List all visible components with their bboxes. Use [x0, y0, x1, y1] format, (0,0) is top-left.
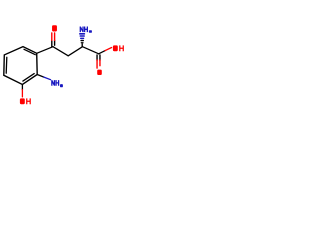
- ketone C1=O double bond right line black half: [54, 40, 56, 45]
- chain NH2 label: N: [80, 27, 83, 33]
- acid OH label: O: [113, 45, 118, 51]
- acid C4=O double bond right line black half: [99, 55, 101, 60]
- aromatic inner line bottom-right: [23, 74, 34, 82]
- bond C4 to acid OH (black half): [99, 51, 106, 54]
- hash dash 1 blue: [80, 33, 85, 35]
- bond C1 to C2: [53, 47, 68, 56]
- aryl NH2 label: N: [52, 80, 55, 86]
- bond C3 to C4: [83, 47, 99, 54]
- chain NH2 label: H: [85, 27, 88, 33]
- benzene ring outer edges: [4, 47, 37, 85]
- bond C4 to acid OH (red half): [105, 48, 111, 51]
- aromatic inner line left: [5, 57, 8, 73]
- hash dash 3 blue: [81, 37, 84, 39]
- ketone C1=O double bond right line red half: [54, 33, 56, 41]
- ketone C1=O double bond left line black half: [51, 40, 53, 46]
- ketone C1=O double bond left line red half: [51, 33, 53, 41]
- phenol OH label: H: [27, 98, 30, 104]
- acid OH label: H: [120, 45, 123, 51]
- acid C4=O double bond right line red half: [99, 60, 101, 66]
- phenol OH label: O: [20, 98, 25, 104]
- hash dash 4 black: [81, 40, 83, 42]
- hash dash 5 black: [81, 42, 83, 44]
- acid C4=O double bond left line red half: [96, 60, 98, 68]
- bond ring to phenol O (black half): [21, 85, 23, 90]
- bond ring to carbonyl C1: [37, 47, 53, 54]
- acid C4=O double bond left line black half: [96, 55, 98, 60]
- bond ring to aryl NH2 (black half): [37, 75, 44, 78]
- bond C2 to C3: [68, 47, 82, 56]
- hash dash 2 blue: [80, 35, 84, 37]
- ketone O label: [52, 25, 57, 31]
- aryl NH2 label: H: [56, 80, 59, 86]
- chain NH2 label: subscript 2: [89, 30, 92, 33]
- bond ring to phenol O (red half): [21, 90, 23, 97]
- stereo hash wedge C3 to NH2: dash 6 (stem, black): [81, 44, 83, 46]
- aromatic inner line top-right: [24, 49, 35, 54]
- acid carbonyl O label: [97, 70, 102, 75]
- bond ring to aryl NH2 (blue half): [44, 77, 51, 80]
- aryl NH2 label: subscript 2: [60, 84, 63, 87]
